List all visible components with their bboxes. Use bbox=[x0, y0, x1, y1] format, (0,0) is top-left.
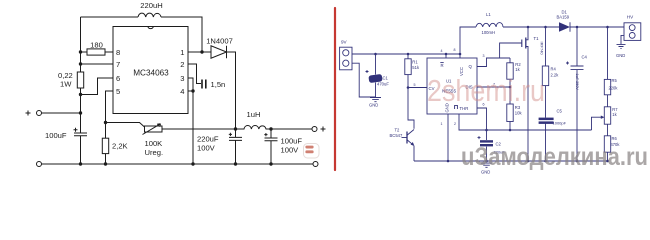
svg-text:R6: R6 bbox=[612, 136, 618, 141]
node C2 rail bbox=[485, 160, 488, 163]
node rail junctions bbox=[79, 162, 82, 165]
svg-text:1uF 250V: 1uF 250V bbox=[575, 74, 579, 91]
resistor R2 1k bbox=[509, 58, 511, 63]
svg-text:2.2k: 2.2k bbox=[551, 73, 560, 78]
node T1 drain bbox=[527, 26, 530, 29]
svg-text:4: 4 bbox=[180, 87, 184, 96]
svg-text:1000pF: 1000pF bbox=[553, 121, 567, 126]
plus mark 220uF bbox=[229, 133, 232, 136]
svg-text:220uF: 220uF bbox=[197, 135, 219, 144]
wire VCC stub bbox=[459, 54, 461, 58]
svg-text:2: 2 bbox=[454, 122, 456, 126]
wire reset pin riser bbox=[445, 54, 447, 58]
svg-text:1: 1 bbox=[180, 48, 184, 57]
wire input bbox=[42, 112, 81, 114]
svg-text:R: R bbox=[441, 63, 444, 68]
node C4 top bbox=[576, 26, 579, 29]
wire HV gnd bbox=[621, 35, 624, 44]
svg-text:R1: R1 bbox=[412, 60, 418, 65]
capacitor 220uF 100V bbox=[229, 129, 242, 164]
node C1 top bbox=[374, 53, 377, 56]
transistor T2 BC547 bbox=[406, 132, 408, 144]
resistor R4 2.2k bbox=[545, 27, 547, 66]
capacitor C4 bbox=[571, 27, 584, 161]
wire FB to pot bbox=[106, 123, 145, 128]
svg-text:180: 180 bbox=[90, 41, 103, 50]
IC MC34063 body bbox=[113, 27, 188, 114]
node THR C2 junction bbox=[485, 129, 488, 132]
svg-text:100uF: 100uF bbox=[281, 137, 303, 146]
trigger symbol bbox=[455, 105, 458, 109]
svg-text:5: 5 bbox=[414, 83, 416, 87]
svg-text:5: 5 bbox=[116, 87, 120, 96]
svg-text:51k: 51k bbox=[412, 65, 420, 70]
output + terminal bbox=[312, 127, 317, 132]
wire to output terminal bbox=[271, 128, 312, 130]
wire CV bbox=[408, 87, 427, 89]
svg-text:C1: C1 bbox=[383, 76, 389, 81]
svg-text:8: 8 bbox=[454, 48, 456, 52]
wire pin 2 bbox=[188, 64, 201, 84]
svg-text:220k: 220k bbox=[609, 86, 619, 91]
wire top left bbox=[81, 16, 139, 18]
svg-text:6: 6 bbox=[116, 74, 120, 83]
separator red line bbox=[334, 8, 336, 170]
svg-text:T2: T2 bbox=[395, 127, 401, 132]
svg-text:4: 4 bbox=[441, 49, 443, 53]
wire pin 5 bbox=[106, 91, 114, 123]
wire top right bbox=[161, 17, 202, 52]
diode 1N4007 bbox=[202, 51, 211, 53]
wire connector pin2 to ground bbox=[352, 63, 376, 97]
capacitor C5 1000pF bbox=[539, 118, 554, 121]
IC U1 NE555 body bbox=[427, 58, 477, 114]
svg-text:7: 7 bbox=[116, 60, 120, 69]
svg-text:L1: L1 bbox=[486, 12, 491, 17]
svg-text:100uF: 100uF bbox=[45, 131, 67, 140]
plus sign output bbox=[321, 127, 326, 132]
input - terminal bbox=[37, 162, 42, 167]
node pin7 junction bbox=[79, 62, 82, 65]
node FB junction bbox=[104, 121, 107, 124]
node C4 rail bbox=[576, 160, 579, 163]
wire pin 3 bbox=[188, 78, 193, 91]
wire pin 6 bbox=[81, 78, 114, 95]
plus mark C2 bbox=[478, 136, 481, 139]
svg-text:100mH: 100mH bbox=[482, 30, 496, 35]
capacitor 1,5n bbox=[202, 80, 206, 89]
node R3 bottom bbox=[509, 129, 512, 132]
node input junction bbox=[79, 111, 82, 114]
wire pin 7 bbox=[81, 63, 114, 65]
node C5 rail bbox=[544, 160, 547, 163]
svg-text:1W: 1W bbox=[60, 80, 72, 89]
node R5 top bbox=[606, 26, 609, 29]
ground rail bbox=[42, 163, 314, 165]
wire TR pin stub bbox=[459, 114, 487, 130]
node R4 top bbox=[544, 26, 547, 29]
wire pin 1 bbox=[188, 51, 202, 53]
svg-text:2: 2 bbox=[180, 60, 184, 69]
plus mark C4 bbox=[566, 62, 569, 65]
svg-text:BC547: BC547 bbox=[390, 133, 403, 138]
connector input 9V bbox=[340, 47, 352, 70]
input + terminal bbox=[37, 111, 42, 116]
svg-text:R5: R5 bbox=[612, 78, 618, 83]
node 555 gnd rail bbox=[447, 160, 450, 163]
svg-text:GND: GND bbox=[369, 103, 378, 108]
resistor 0,22 1W bbox=[77, 72, 83, 88]
capacitor C2 bbox=[486, 130, 488, 140]
ground rail right bbox=[414, 160, 608, 162]
svg-text:1: 1 bbox=[441, 122, 443, 126]
inductor L1 100mH bbox=[460, 27, 476, 54]
svg-text:R4: R4 bbox=[551, 67, 557, 72]
svg-text:T1: T1 bbox=[534, 36, 540, 41]
pot wiper arrow bbox=[143, 124, 161, 135]
ground symbol C1 bbox=[370, 98, 381, 102]
svg-text:10k: 10k bbox=[515, 110, 523, 115]
resistor 2,2K bbox=[105, 123, 107, 139]
node pin1 junction bbox=[200, 50, 203, 53]
plus mark cap bbox=[74, 128, 78, 132]
plus mark C1 bbox=[366, 70, 369, 73]
svg-text:9V: 9V bbox=[341, 40, 348, 45]
svg-text:100V: 100V bbox=[197, 144, 216, 153]
svg-text:2,2K: 2,2K bbox=[112, 141, 128, 150]
node vcc top bbox=[459, 53, 462, 56]
svg-text:2shemi.ru: 2shemi.ru bbox=[427, 73, 545, 108]
svg-text:C5: C5 bbox=[557, 109, 563, 114]
svg-text:1uH: 1uH bbox=[247, 110, 261, 119]
node T1 source rail bbox=[527, 160, 530, 163]
svg-text:IRF740: IRF740 bbox=[540, 42, 545, 56]
svg-text:BA159: BA159 bbox=[557, 15, 570, 20]
resistor R6 470k bbox=[607, 124, 609, 136]
resistor R5 220k bbox=[607, 27, 609, 79]
svg-text:uЗамоделкина.ru: uЗамоделкина.ru bbox=[461, 143, 648, 171]
node DIS junction bbox=[509, 86, 512, 89]
svg-text:100K: 100K bbox=[145, 139, 163, 148]
node pin8 junction bbox=[79, 50, 82, 53]
wire Q output bbox=[477, 58, 510, 67]
svg-text:100V: 100V bbox=[281, 145, 300, 154]
plus sign input bbox=[26, 111, 31, 116]
svg-text:470uF: 470uF bbox=[377, 82, 389, 87]
resistor R1 51k bbox=[407, 54, 409, 59]
wire pot to output node bbox=[162, 128, 236, 130]
resistor R3 10k bbox=[509, 87, 511, 104]
inductor 220uH bbox=[138, 13, 161, 17]
svg-text:HV: HV bbox=[627, 15, 634, 20]
node R1 CV junction bbox=[407, 86, 410, 89]
wire 555 GND stub bbox=[447, 114, 449, 161]
node output junction bbox=[269, 127, 272, 130]
svg-text:GND: GND bbox=[616, 53, 625, 58]
wire left rail bbox=[80, 17, 82, 164]
svg-text:Ureg.: Ureg. bbox=[145, 148, 164, 157]
wire pin4 to ground bbox=[192, 91, 194, 164]
ground symbol C2 bbox=[481, 163, 492, 167]
connector output HV bbox=[624, 23, 641, 41]
svg-text:3: 3 bbox=[483, 54, 485, 58]
node reset top bbox=[445, 53, 448, 56]
plus mark 100uF bbox=[264, 133, 267, 136]
node pin6 junction bbox=[79, 93, 82, 96]
wire DIS bbox=[477, 86, 510, 88]
wire gate riser bbox=[500, 43, 522, 58]
ground symbol HV bbox=[617, 44, 626, 48]
wire THR bbox=[477, 108, 487, 130]
transistor T1 IRF740 mosfet bbox=[526, 27, 528, 40]
svg-text:1,5n: 1,5n bbox=[211, 80, 226, 89]
wire top rail bbox=[352, 53, 460, 55]
node diode output junction bbox=[234, 127, 237, 130]
node pin4 junction bbox=[191, 89, 194, 92]
logo red icon bbox=[304, 144, 320, 159]
diode D1 BA159 bbox=[559, 22, 570, 32]
wire pin 4 bbox=[188, 90, 193, 92]
IC notch bbox=[148, 27, 154, 29]
svg-text:1N4007: 1N4007 bbox=[206, 37, 233, 46]
node R6 rail bbox=[606, 160, 609, 163]
node R1 top bbox=[407, 53, 410, 56]
potentiometer R7 1k bbox=[607, 95, 609, 107]
output - terminal bbox=[313, 162, 318, 167]
resistor 180 bbox=[81, 51, 88, 53]
inductor 1uH bbox=[236, 125, 272, 129]
capacitor 100uF 100V output bbox=[265, 129, 278, 164]
potentiometer 100K Ureg bbox=[145, 126, 163, 132]
svg-text:3: 3 bbox=[180, 74, 184, 83]
svg-text:MC34063: MC34063 bbox=[133, 69, 169, 78]
svg-text:220uH: 220uH bbox=[140, 1, 162, 10]
capacitor 100uF input bbox=[74, 133, 87, 136]
wire feedback row bbox=[487, 129, 592, 131]
svg-text:8: 8 bbox=[116, 48, 120, 57]
capacitor C1 470uF bbox=[375, 54, 377, 75]
svg-text:C4: C4 bbox=[582, 55, 588, 60]
